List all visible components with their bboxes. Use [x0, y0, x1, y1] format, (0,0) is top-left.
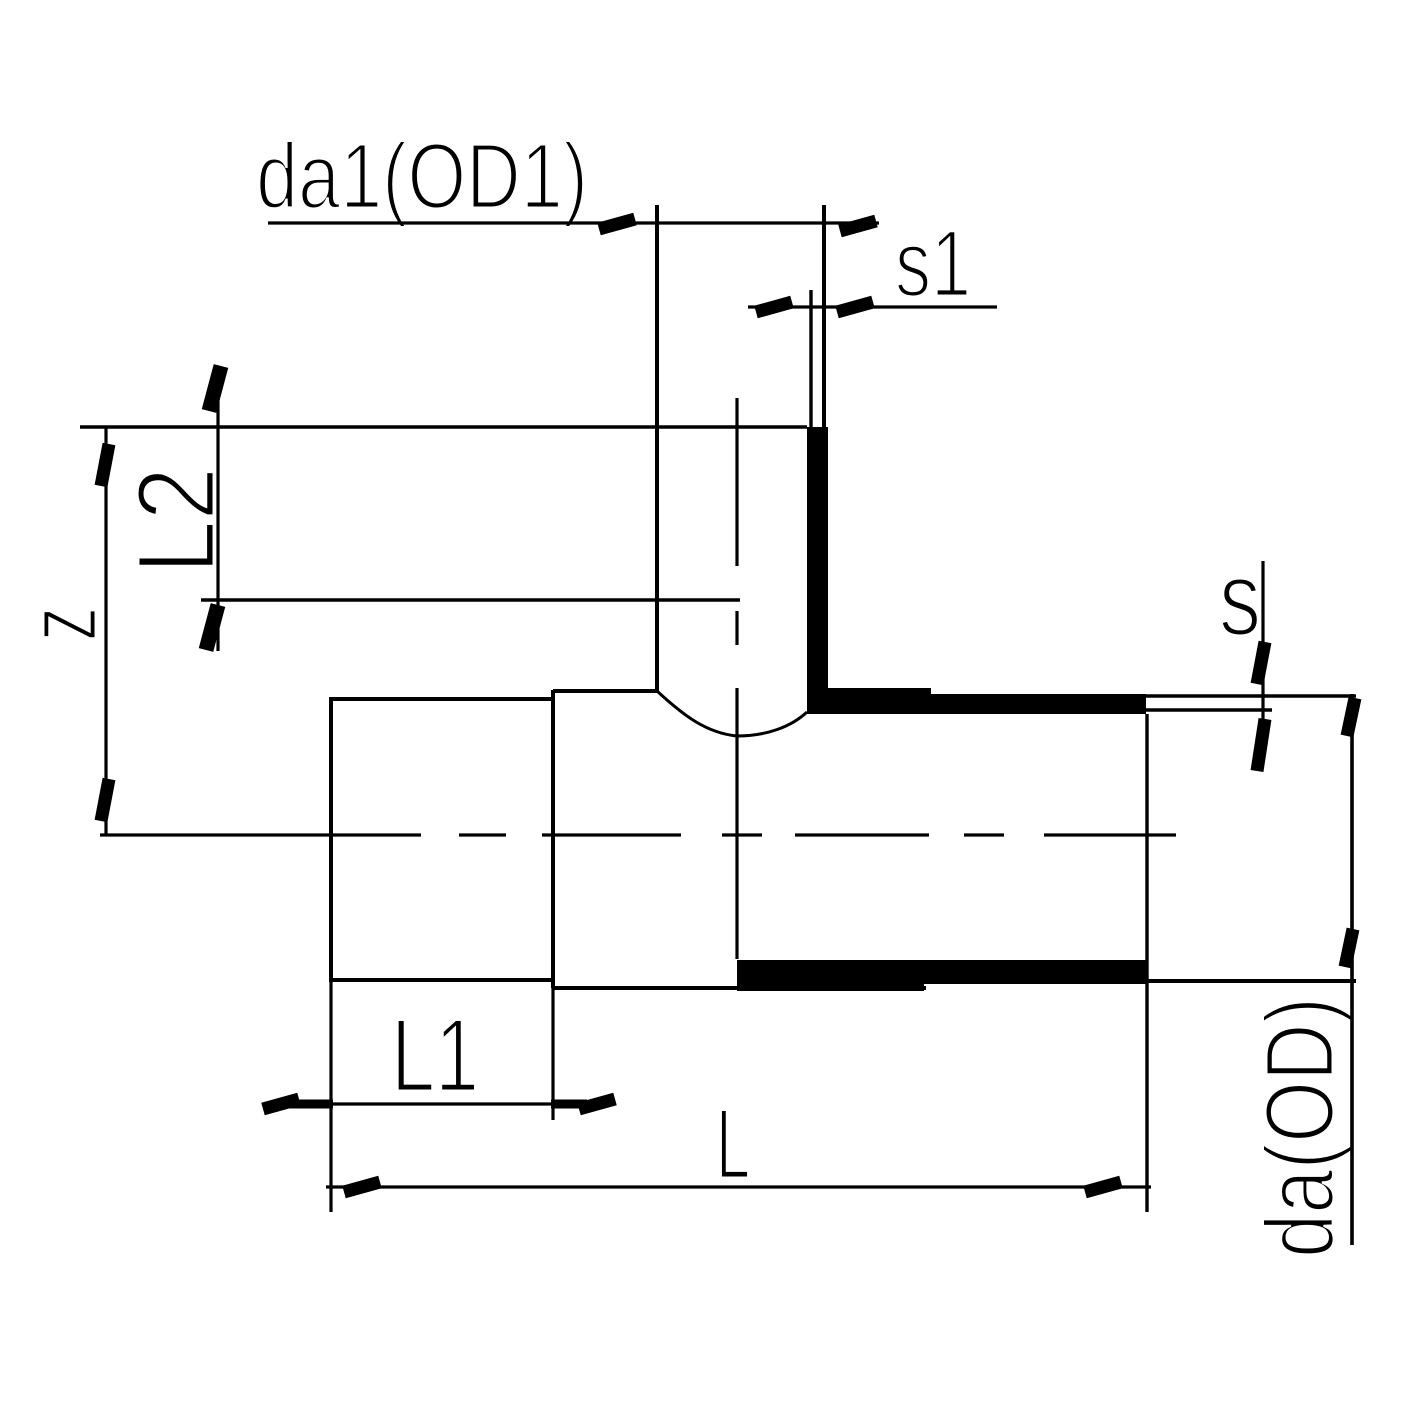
svg-text:z: z: [6, 607, 118, 641]
dimension s line: [1261, 561, 1264, 763]
main pipe end face / da(OD) dimension line: [1350, 694, 1354, 1245]
dimension s tick top: [1257, 642, 1265, 684]
dimension da1(OD1) tick left: [599, 219, 635, 229]
dimension s1 tick right: [837, 302, 873, 312]
dimension L1 leader thick right: [551, 1100, 587, 1109]
svg-text:da1(OD1): da1(OD1): [256, 124, 588, 228]
dimension L2 tick top: [209, 366, 221, 411]
dimension da1(OD1) tick right: [840, 221, 876, 231]
dimension Z tick bottom: [101, 779, 109, 821]
dimension s1 tick left: [756, 302, 792, 312]
fusion zone boundary / L extension: [1145, 714, 1148, 1212]
dimension s1 line: [748, 305, 997, 308]
left socket outline: [331, 699, 553, 980]
fusion thick bar main pipe top: [828, 688, 1146, 714]
svg-text:s1: s1: [895, 211, 971, 317]
dimension L line: [326, 1185, 1151, 1188]
fusion thick bar branch right wall: [807, 427, 828, 714]
dimension L tick right: [1085, 1182, 1121, 1192]
L1 L extension line left: [329, 980, 332, 1212]
branch inner wall extension: [809, 290, 812, 427]
dimension L1 leader thick left: [289, 1100, 333, 1109]
dimension da1(OD1) line: [268, 221, 879, 224]
svg-text:s: s: [1219, 540, 1261, 658]
fusion thick bar main pipe bottom: [737, 960, 1146, 991]
dimension L2 line: [216, 373, 219, 651]
body step edge: [551, 690, 555, 988]
L1 extension line right: [551, 988, 554, 1120]
dimension L2 tick bottom: [206, 605, 218, 650]
dimension L1 tick left: [263, 1099, 299, 1109]
main pipe top inner wall line: [1146, 708, 1272, 712]
dimension L1 line: [270, 1102, 608, 1105]
svg-text:L1: L1: [391, 998, 479, 1114]
branch centerline: [735, 398, 738, 959]
branch outer wall right extension: [822, 205, 826, 427]
dimension da(OD) tick top: [1347, 698, 1355, 736]
dimension Z line: [104, 428, 107, 835]
main centerline: [100, 833, 1176, 836]
branch socket depth line L2: [201, 598, 740, 601]
main pipe bottom outer line right: [924, 979, 1356, 983]
dimension s tick bottom: [1257, 719, 1265, 771]
dimension L1 tick right: [579, 1099, 615, 1109]
dimension L tick left: [344, 1182, 380, 1192]
body middle top edge: [553, 689, 657, 693]
branch outer wall left: [655, 205, 659, 691]
svg-text:da(OD): da(OD): [1245, 997, 1354, 1258]
svg-text:L: L: [716, 1088, 750, 1199]
main pipe bottom outer line left: [553, 986, 926, 990]
branch top face line: [80, 425, 807, 428]
saddle fillet curve: [657, 691, 807, 736]
main pipe top outer line right: [1146, 694, 1356, 698]
dimension Z tick top: [101, 444, 109, 486]
dimension da(OD) tick bottom: [1345, 929, 1353, 967]
